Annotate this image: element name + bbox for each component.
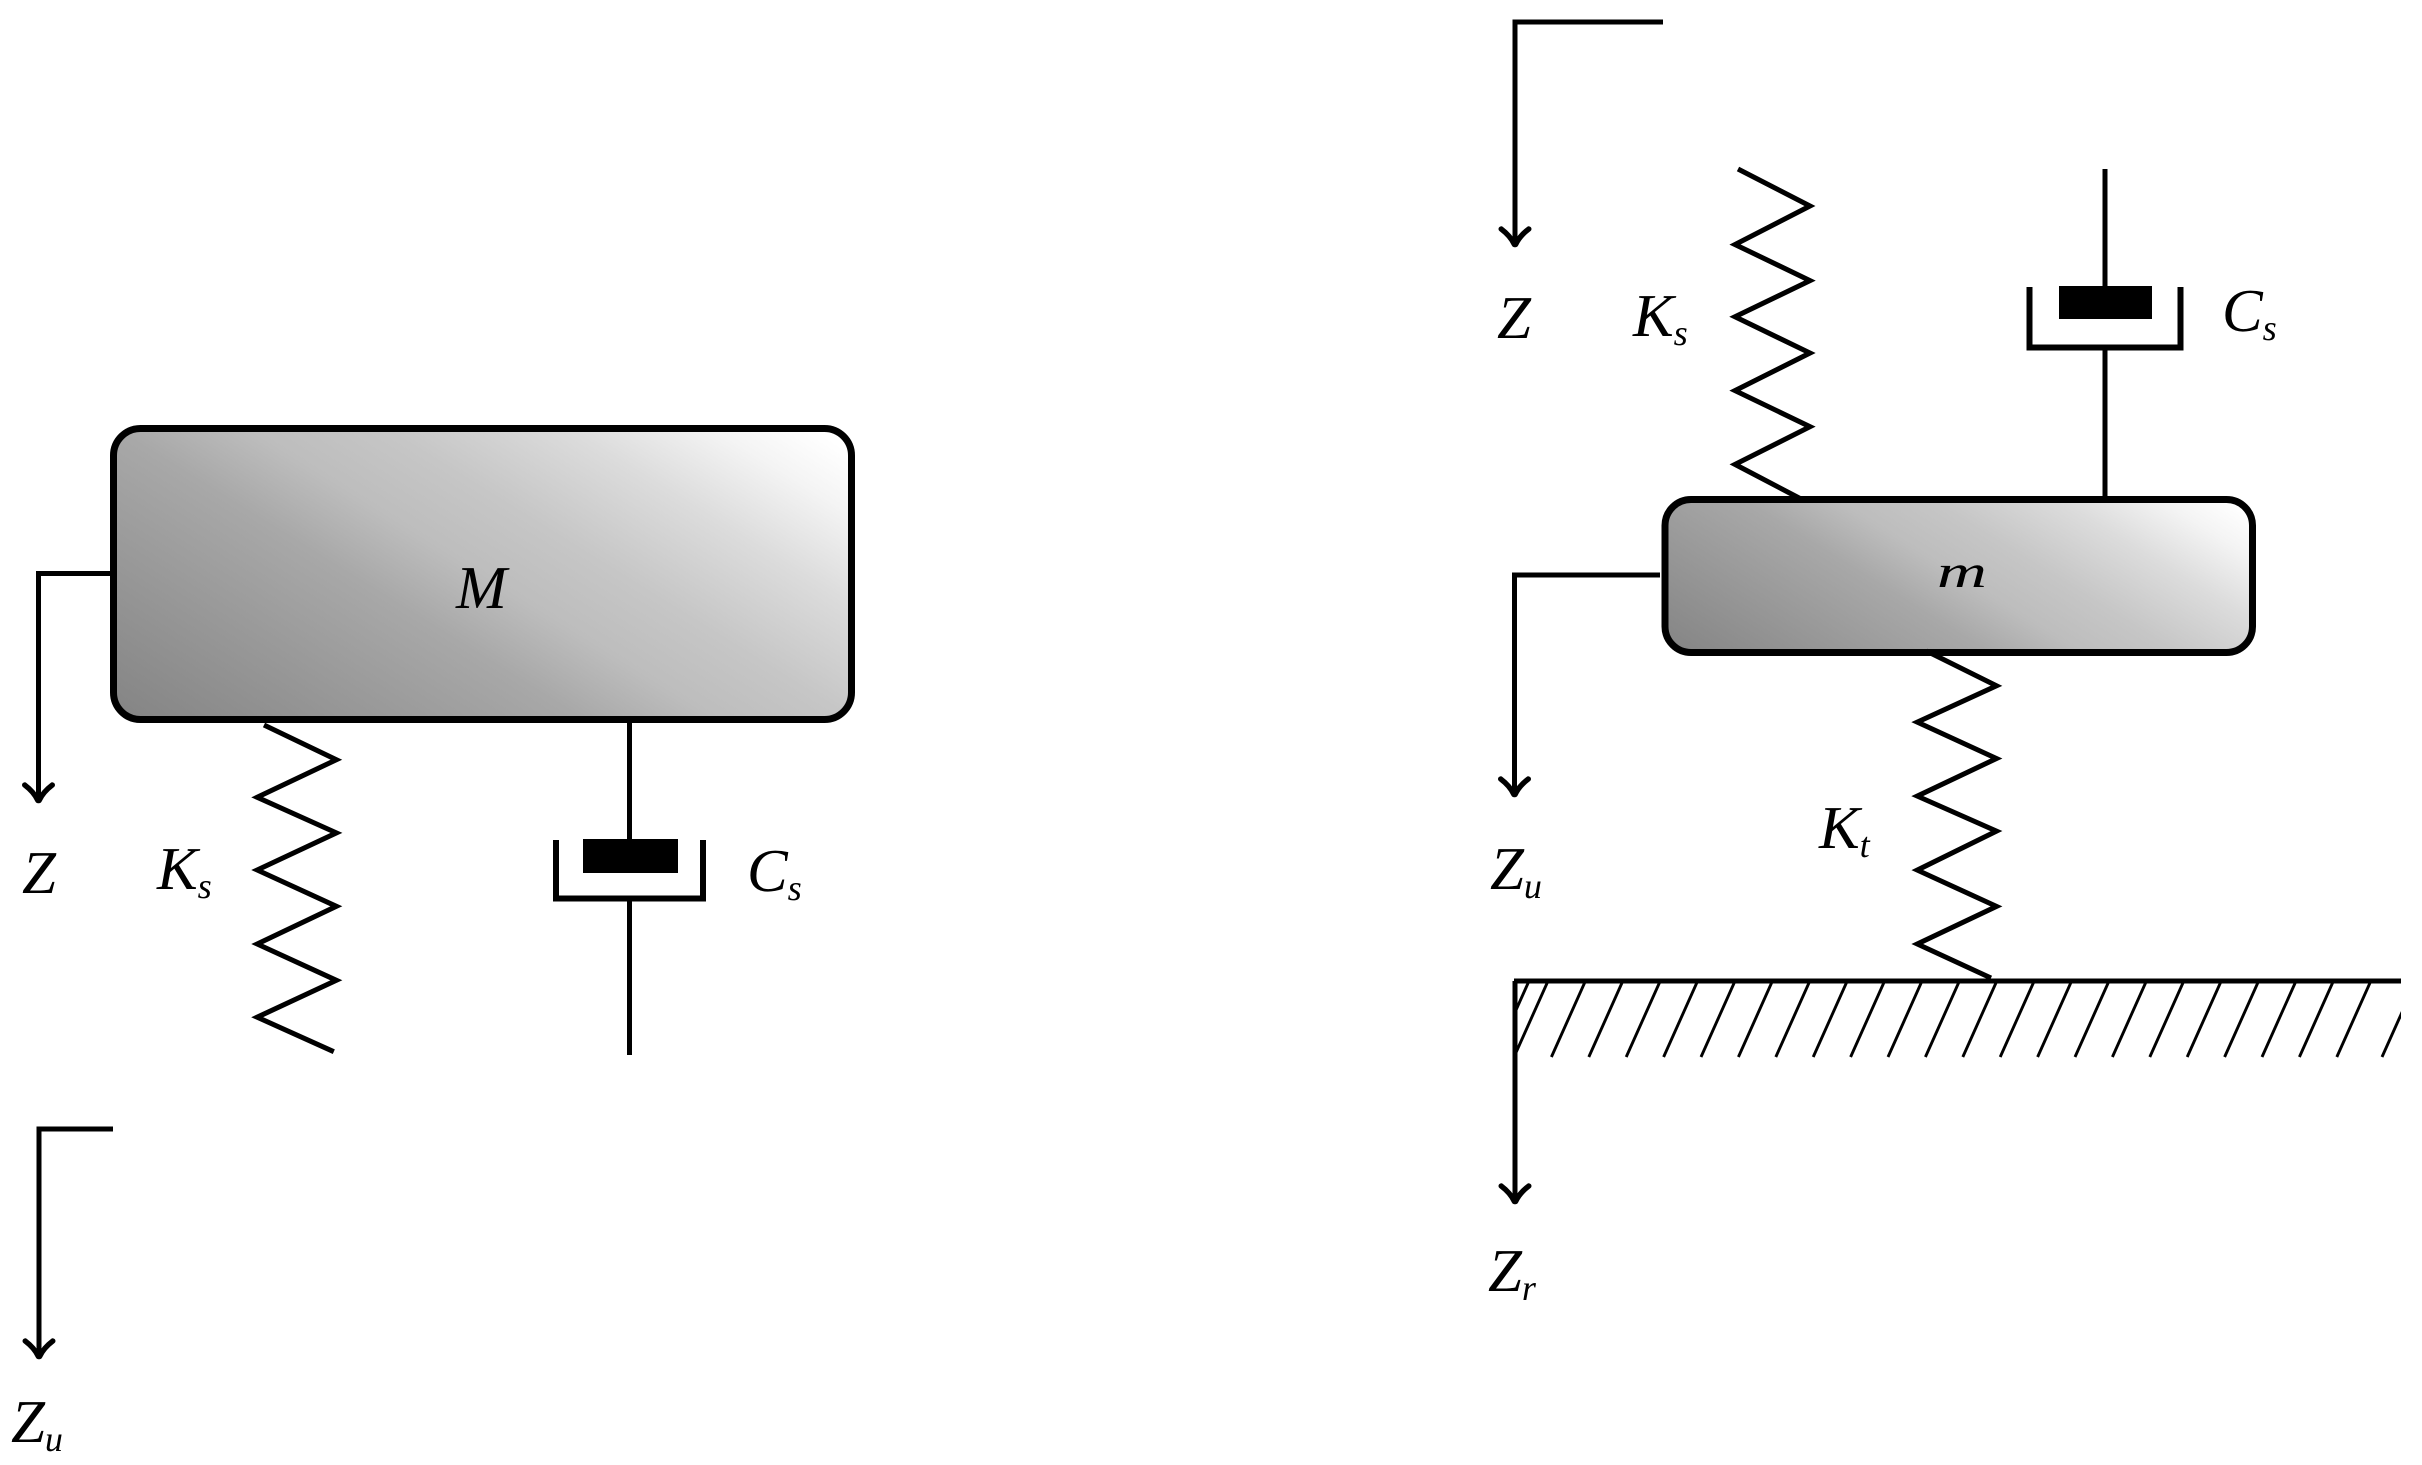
label Zu (left): [12, 1402, 62, 1451]
damper Cs (left): [556, 722, 703, 1055]
mass m (unsprung mass, right): [1665, 500, 2253, 653]
label Zu (right): [1491, 849, 1541, 898]
label Cs (right): [2225, 291, 2275, 341]
label Zr: [1489, 1251, 1536, 1300]
label Kt: [1818, 808, 1870, 857]
mass M (sprung mass, left): [114, 429, 852, 720]
damper Cs (right): [2030, 169, 2181, 498]
spring Ks (left): [257, 725, 336, 1052]
label M: [455, 568, 509, 608]
arrow Z (left, displacement of sprung mass M): [25, 574, 110, 801]
arrow Zu (left, displacement of unsprung mass): [25, 1129, 113, 1357]
ground: [1495, 981, 2416, 1057]
label Ks (left): [156, 849, 210, 898]
label Cs (left): [750, 851, 800, 901]
spring Ks (right): [1735, 169, 1810, 499]
spring Kt (tyre stiffness): [1917, 651, 1996, 978]
arrow Z (right diagram): [1501, 22, 1663, 245]
label m: [1940, 565, 1984, 587]
label Z (right): [1498, 298, 1532, 338]
arrow Zr (road displacement input): [1501, 981, 1529, 1202]
label Ks (right): [1632, 296, 1686, 345]
label Z (left): [23, 853, 57, 893]
arrow Zu (right): [1501, 575, 1660, 795]
